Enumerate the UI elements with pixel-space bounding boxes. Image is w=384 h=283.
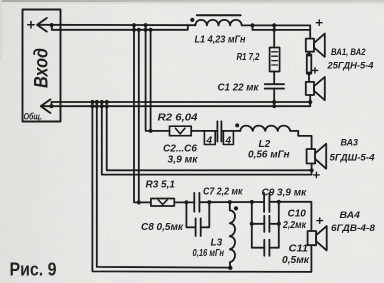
capacitor C10 branch [252,223,279,225]
wire: return vertical w1 to bottom outer line [92,102,311,272]
wire: return rail D (lower) [41,105,310,107]
inductor L2 [240,126,290,131]
inductor L1 core bar [197,14,241,16]
wire: BA3 to return [311,164,313,175]
svg-text:0,56 мГн: 0,56 мГн [248,150,290,161]
svg-text:0,16 мГн: 0,16 мГн [193,248,225,259]
wire: C2 bank to L2 [221,130,240,132]
svg-text:С11: С11 [289,244,309,255]
inductor L3 winding-start dot [234,206,238,210]
svg-text:С8 0,5мк: С8 0,5мк [141,222,184,233]
svg-text:Общ.: Общ. [24,112,43,123]
svg-text:0,5мк: 0,5мк [282,255,310,266]
wire: BA2 to return bus [309,95,311,106]
wire: cap bank left rail [251,202,253,248]
input + terminal arrow [37,18,47,32]
svg-text:С7 2,2 мк: С7 2,2 мк [203,187,243,198]
speaker BA2 [306,77,325,100]
resistor R2 (box with V) [170,126,192,136]
wire: return vertical w2 to bottom inner line [97,102,231,268]
node R [250,200,254,204]
capacitor C11 branch [252,247,279,249]
plus mark BA1 [316,20,322,25]
svg-text:ВА4: ВА4 [340,210,361,220]
svg-text:5ГДШ-5-4: 5ГДШ-5-4 [330,153,375,163]
capacitor C8 plates [196,218,201,236]
wire: cap bank right rail [278,202,280,248]
wire: return rail C (upper) [52,101,311,103]
capacitor C1 [265,84,284,88]
wire: return vertical w4 to BA3 upper return [107,102,312,170]
svg-text:R3 5,1: R3 5,1 [146,180,176,191]
wire: R1 feed down [273,25,275,47]
svg-text:ВА1, ВА2: ВА1, ВА2 [331,47,366,57]
plus polarity mark at input [28,22,34,28]
node: rail D to rail C hook [49,104,53,108]
wire: C1 to return bus [273,89,275,107]
svg-text:2,2мк: 2,2мк [282,220,307,231]
junction: R1 tap on rail A [272,23,276,27]
svg-text:ВА3: ВА3 [341,138,359,148]
svg-text:3,9 мк: 3,9 мк [168,155,199,166]
node: rail A to rail B hook at input [51,25,53,30]
svg-text:Рис. 9: Рис. 9 [10,259,57,280]
junction dots: feed verticals on top bus [132,23,153,32]
capacitor bank C2...C6 plates [217,121,221,141]
plus mark BA2 [312,68,318,73]
junction dots: return verticals on bus [90,100,108,108]
resistor R1 (vertical box with power ticks) [270,48,280,72]
C2 bank left count box (4) [204,131,215,144]
inductor L2 winding-start dot [235,123,239,127]
svg-text:25ГДН-5-4: 25ГДН-5-4 [326,61,373,71]
svg-text:R2 6,04: R2 6,04 [158,113,198,124]
svg-text:Вход: Вход [32,48,53,88]
svg-text:L1 4,23 мГн: L1 4,23 мГн [195,35,246,46]
wire: R1 to C1 [273,72,275,85]
speaker BA3 [307,144,327,169]
plus mark BA4 [317,218,323,223]
svg-text:С2...С6: С2...С6 [163,144,197,155]
svg-text:6ГДВ-4-8: 6ГДВ-4-8 [331,223,375,233]
svg-text:С10: С10 [288,209,307,220]
svg-text:L3: L3 [211,238,223,249]
wire: + rail A (top bus upper line) [38,24,196,26]
wire: R3 to node P [174,201,194,203]
wire: BA4 to bottom return [310,245,312,272]
wire: L2 to BA3 (jog) [290,131,311,149]
node S [277,200,281,204]
resistor R3 (box with V) [151,199,174,207]
inductor L3 (vertical) [230,202,235,268]
wire: return vertical w3 to BA3 lower return [102,102,312,175]
node P [184,200,188,204]
node: L3 tap [228,200,232,204]
junction: C1 on return bus [272,100,276,104]
capacitor C9 [264,193,269,212]
junction: L3 on bottom return [228,266,232,270]
svg-text:С1 22 мк: С1 22 мк [218,83,260,94]
svg-text:4: 4 [206,136,213,147]
wire: rail B' lower line after L1 [253,29,311,31]
common (Obshch) terminal arrow [41,99,51,113]
inductor L1 [195,20,241,26]
node Q [207,200,211,204]
input terminal box [23,10,61,122]
wire: node S to BA4 [279,202,312,231]
capacitor C7 [194,193,199,212]
wire: C7 to node Q [199,201,229,203]
wire: feed vertical v1 to R3 line [134,25,151,202]
svg-text:4: 4 [225,136,232,147]
wire: rail A after L1 to speakers [242,24,311,26]
inductor L1 winding-start dot [190,18,194,22]
speaker BA1 [306,34,325,57]
speaker BA4 [308,226,327,250]
capacitor C8 parallel loop [186,202,209,227]
svg-text:L2: L2 [259,139,271,150]
speaker BA1 feed [309,25,311,38]
junction: rail B' pickup after L1 [250,23,254,27]
svg-text:С9 3,9 мк: С9 3,9 мк [262,188,308,199]
wire: feed vertical v4 [150,30,152,131]
wire: BA1 to BA2 doubled link [307,52,312,82]
wire: R2 to C2 bank [191,130,216,132]
C2 bank right count box (4) [223,131,233,144]
wire: R to C9 [252,201,264,203]
wire: + rail B (top bus lower line) [52,25,188,30]
wire: feed vertical v3 to R2 line [146,25,170,131]
wire: Q to node R [230,201,252,203]
wire: feed vertical v2 [138,30,140,203]
plus mark BA3 [314,172,320,177]
wire: C9 to node S [269,201,278,203]
svg-text:R1 7,2: R1 7,2 [237,52,260,63]
